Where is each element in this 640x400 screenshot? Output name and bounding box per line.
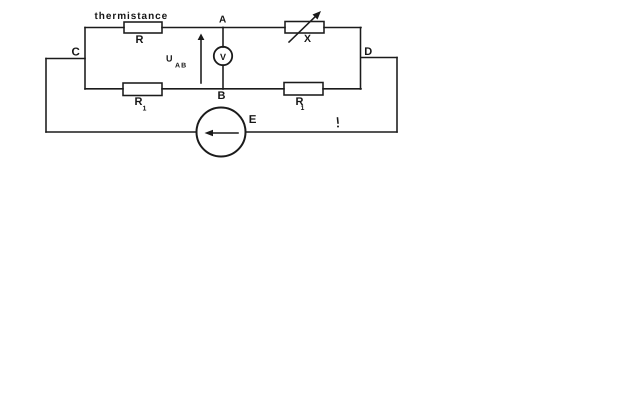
arrow U_AB <box>198 34 205 84</box>
wire: right inner vertical D branch <box>360 28 362 90</box>
voltmeter V <box>214 47 232 65</box>
node B <box>218 90 226 102</box>
label R1 (left) <box>135 96 147 113</box>
node A <box>219 15 226 26</box>
label X <box>304 33 311 45</box>
svg-text:R: R <box>135 96 143 108</box>
source E <box>197 108 246 157</box>
svg-text:E: E <box>249 114 257 126</box>
svg-text:thermistance: thermistance <box>95 11 169 22</box>
wire: source to bottom outer right <box>246 131 398 133</box>
wire: R1 right to D branch <box>323 88 361 90</box>
svg-text:1: 1 <box>143 106 147 113</box>
svg-text:X: X <box>304 33 311 45</box>
node D <box>364 46 372 58</box>
wire: node C to outer left <box>46 58 85 60</box>
svg-text:B: B <box>218 90 226 102</box>
label E <box>249 114 257 126</box>
label i (current mark) <box>337 118 339 128</box>
label R <box>136 34 144 46</box>
wire: bottom outer left to source <box>46 131 197 133</box>
wire: node D to outer right <box>361 57 397 59</box>
label R1 (right) <box>296 96 305 112</box>
wire: C branch to resistor R <box>85 27 124 29</box>
svg-text:D: D <box>364 46 372 58</box>
wire: R to node A <box>162 27 223 29</box>
svg-text:A: A <box>219 15 226 26</box>
svg-text:U: U <box>166 54 173 64</box>
label U_AB <box>166 54 187 70</box>
wire: B to R1 right <box>223 88 284 90</box>
svg-text:V: V <box>220 52 226 62</box>
wire: X to D branch <box>324 27 361 29</box>
resistor X (variable) <box>285 22 324 34</box>
wire: bottom bridge C to R1 left <box>85 88 123 90</box>
wire: left inner vertical C branch <box>84 28 86 90</box>
resistor R1 (left) <box>123 83 162 96</box>
wire: voltmeter to node B <box>222 65 224 89</box>
svg-text:R: R <box>136 34 144 46</box>
svg-text:AB: AB <box>175 63 187 70</box>
label thermistance <box>95 11 169 22</box>
wire: outer right vertical <box>396 58 398 133</box>
wire: outer left vertical <box>45 59 47 133</box>
resistor R (thermistance) <box>124 22 162 33</box>
resistor R1 (right) <box>284 83 323 96</box>
wire: A to resistor X <box>223 27 285 29</box>
wire: A to voltmeter <box>222 28 224 48</box>
node C <box>72 47 80 59</box>
arrow: variable-resistor X diagonal <box>289 11 321 42</box>
wire: R1 left to node B <box>162 88 223 90</box>
svg-text:1: 1 <box>301 105 305 112</box>
svg-text:C: C <box>72 47 80 59</box>
